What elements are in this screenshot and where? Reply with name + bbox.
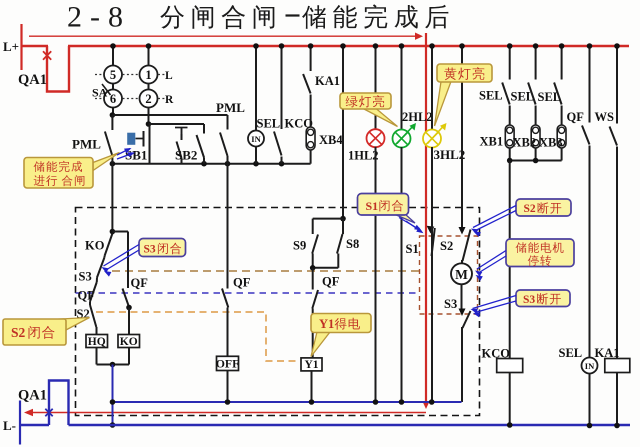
contact QF (right) — [589, 46, 591, 123]
wire to lamp 2HL2 — [401, 46, 403, 130]
wire rail to KO contact — [111, 164, 113, 232]
svg-text:S1: S1 — [366, 199, 379, 213]
svg-text:SEL: SEL — [479, 89, 503, 103]
callout: S1 closes — [394, 214, 415, 223]
wire bus to SA contact 1 — [148, 46, 150, 66]
svg-text:S3: S3 — [523, 294, 535, 306]
svg-text:3HL2: 3HL2 — [434, 147, 466, 162]
junction rail XB1-XB3 — [510, 160, 562, 162]
coil Y1 — [301, 358, 322, 371]
svg-text:L-: L- — [3, 418, 16, 433]
L+ supply lead — [20, 24, 22, 70]
wire rail to QF (OFF branch) — [227, 164, 229, 289]
svg-text:KO: KO — [120, 336, 138, 348]
parallel QF branch — [112, 231, 128, 233]
callout: S2 closes — [50, 318, 90, 331]
breaker QA1 (bottom) — [20, 424, 49, 426]
SA contact 2 — [140, 90, 158, 108]
red flow line (bottom, arrow left) — [27, 412, 426, 414]
wire bus to S2 — [461, 46, 463, 228]
callout: S2 opens — [516, 199, 571, 216]
svg-text:SEL: SEL — [538, 90, 562, 104]
terminal XB3 — [557, 125, 566, 148]
svg-text:XB4: XB4 — [319, 133, 343, 147]
svg-text:SEL: SEL — [559, 346, 583, 360]
QF mechanical link dashed line — [76, 292, 420, 294]
svg-text:QF: QF — [567, 110, 585, 124]
svg-text:IN: IN — [585, 361, 595, 371]
svg-text:R: R — [165, 94, 174, 106]
svg-text:QF: QF — [78, 289, 96, 303]
callout: S3 opens — [516, 290, 570, 307]
common rail under pushbuttons — [112, 163, 310, 165]
wire bus to S9/S8 branch — [342, 46, 344, 219]
branch bracket top — [340, 216, 346, 222]
svg-text:Y1: Y1 — [319, 317, 334, 331]
callout: yellow lamp on — [435, 82, 452, 127]
motor branch dashed box — [420, 236, 478, 314]
wire 5-6 — [112, 84, 114, 90]
red flow line (vertical) — [425, 33, 427, 401]
callout: green lamp on — [363, 109, 398, 127]
pushbutton SB1 — [128, 133, 136, 145]
svg-text:QA1: QA1 — [18, 388, 47, 404]
contact S3 (left) — [103, 256, 105, 258]
contact SEL 3 — [561, 46, 563, 80]
wire junction to bus — [112, 365, 114, 426]
red bus top — [68, 45, 629, 47]
svg-text:L: L — [165, 70, 173, 82]
wire XB junction to KCO coil — [509, 161, 511, 359]
lamp 1HL2 — [367, 129, 385, 147]
L- supply lead — [19, 401, 21, 445]
contact S3 (motor) — [459, 309, 466, 317]
dashed enclosure box — [76, 208, 480, 416]
svg-text:OFF: OFF — [216, 356, 240, 370]
contact SEL 2 — [535, 46, 537, 80]
svg-text:SEL: SEL — [511, 90, 535, 104]
indicator SEL IN — [248, 131, 264, 147]
svg-text:QF: QF — [131, 276, 149, 290]
contact PML (right) — [227, 115, 229, 130]
SA contact 5 — [104, 66, 122, 84]
svg-text:XB3: XB3 — [539, 136, 563, 150]
pushbutton SB2 — [175, 127, 188, 129]
contact SEL 1 — [509, 46, 511, 80]
contact QF (OFF) — [222, 289, 228, 308]
coil OFF — [217, 356, 239, 370]
svg-text:S1: S1 — [406, 242, 419, 256]
svg-text:KA1: KA1 — [315, 74, 340, 88]
svg-text:S2: S2 — [524, 203, 536, 215]
contact WS — [616, 46, 618, 124]
wire rail from contact 2 — [148, 108, 150, 125]
lamp 2HL2 (lit) — [393, 130, 411, 148]
callout: charge motor stops — [506, 239, 574, 267]
svg-text:S9: S9 — [293, 239, 306, 253]
wire rail from contact 6 — [112, 108, 114, 116]
contact S1 — [427, 226, 435, 234]
S2 to Y1 dashed path — [96, 312, 300, 361]
SA contact 1 — [140, 66, 158, 84]
contact KO — [105, 234, 113, 256]
svg-text:S3: S3 — [144, 244, 156, 256]
svg-text:2HL2: 2HL2 — [402, 110, 433, 124]
svg-text:L+: L+ — [3, 39, 19, 54]
svg-text:QA1: QA1 — [18, 72, 47, 88]
terminal XB2 — [531, 125, 540, 148]
wire bus to SA contact 5 — [112, 46, 114, 66]
wire to lamp 1HL2 — [375, 46, 377, 130]
callout: charge complete, close — [93, 153, 120, 171]
svg-text:S3: S3 — [79, 270, 92, 284]
terminal XB1 — [505, 125, 514, 148]
contact S8 — [342, 219, 344, 234]
SA contact 6 — [104, 90, 122, 108]
svg-text:S3: S3 — [444, 297, 457, 311]
svg-text:5: 5 — [110, 68, 116, 82]
S3 mechanical link dashed line — [112, 270, 420, 272]
svg-text:KO: KO — [85, 239, 105, 253]
contact QF (left) — [96, 278, 98, 283]
wire bus to SEL lamp — [255, 46, 257, 131]
svg-text:XB2: XB2 — [513, 136, 537, 150]
svg-text:M: M — [455, 267, 468, 282]
contact QF (Y1 branch) — [312, 268, 314, 290]
svg-text:S2: S2 — [11, 325, 26, 340]
coil KO — [118, 335, 140, 348]
svg-text:XB1: XB1 — [480, 135, 504, 149]
wire 1-2 — [148, 84, 150, 90]
contact S2 (left) — [89, 302, 91, 306]
svg-text:S2: S2 — [440, 239, 453, 253]
red bus L+ — [22, 45, 49, 47]
wire to lamp 3HL2 — [431, 46, 433, 130]
svg-text:SEL: SEL — [257, 117, 281, 131]
contact KA1 (top) — [310, 46, 312, 71]
svg-text:SB2: SB2 — [175, 148, 197, 163]
red flow arrow line (top) — [29, 35, 416, 37]
negative link rail — [113, 401, 462, 403]
svg-text:PML: PML — [216, 100, 245, 115]
contact SB2/remote — [203, 124, 205, 134]
svg-text:IN: IN — [251, 134, 261, 144]
svg-text:HQ: HQ — [88, 336, 106, 348]
svg-text:1HL2: 1HL2 — [348, 149, 379, 163]
svg-text:S8: S8 — [346, 237, 359, 251]
svg-text:2-8: 2-8 — [67, 1, 131, 34]
lamp 3HL2 (lit) — [423, 130, 441, 148]
coil HQ — [86, 335, 108, 348]
contact S2 — [459, 227, 466, 235]
callout: S3 closes — [139, 239, 186, 257]
svg-text:1: 1 — [145, 68, 151, 82]
contact S9 — [312, 219, 314, 234]
callout: Y1 energized — [311, 332, 330, 357]
motor M — [451, 263, 472, 284]
contact PML (left) — [111, 115, 113, 130]
branch bracket bottom — [313, 267, 339, 269]
blue bus bottom — [69, 424, 631, 426]
terminal XB4 — [306, 127, 315, 150]
wires coils to junction — [96, 348, 98, 365]
svg-text:PML: PML — [72, 137, 101, 152]
svg-text:QF: QF — [322, 275, 340, 289]
svg-text:2: 2 — [145, 92, 151, 106]
breaker QA1 (top) — [47, 46, 69, 92]
contact KCO — [281, 46, 283, 129]
svg-text:QF: QF — [233, 276, 251, 290]
svg-text:Y1: Y1 — [304, 359, 318, 371]
SA dotted links — [95, 74, 103, 76]
svg-text:WS: WS — [595, 110, 615, 124]
